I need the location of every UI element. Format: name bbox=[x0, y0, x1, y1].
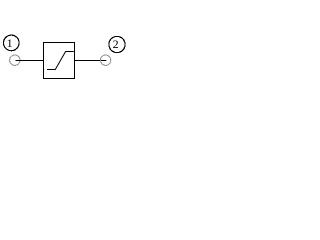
input terminal bbox=[10, 55, 20, 65]
wire input bbox=[16, 60, 44, 62]
input port 1 bbox=[4, 35, 20, 51]
wire output bbox=[75, 60, 107, 62]
saturation block U1 bbox=[44, 43, 75, 79]
output terminal bbox=[100, 55, 110, 65]
svg-text:1: 1 bbox=[7, 36, 13, 50]
saturation curve bbox=[47, 52, 74, 70]
output port 2 bbox=[109, 36, 125, 52]
svg-text:2: 2 bbox=[113, 37, 119, 51]
